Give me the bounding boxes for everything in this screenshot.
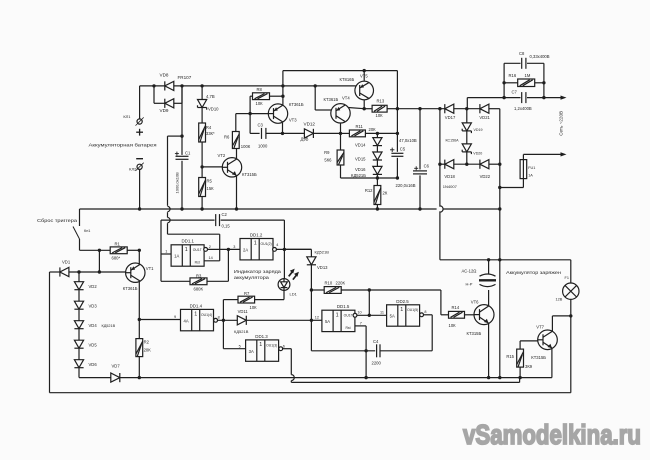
wire C2 right [221,219,285,221]
svg-text:12: 12 [315,316,319,320]
junction bridge center bottom [465,163,468,166]
wire R1 to VT1 emitter node [127,249,139,251]
svg-text:VD14: VD14 [355,142,366,147]
svg-text:OU1(3): OU1(3) [266,343,277,347]
svg-text:DD1.1: DD1.1 [182,239,195,244]
wire R5 to rail [201,197,203,210]
wire VD1 left [50,271,60,273]
junction VT3 base node [248,112,251,115]
wire VT5 emitter to top rail [363,71,365,82]
svg-text:10К: 10К [256,101,264,106]
junction C4 pin7 node [364,349,367,352]
junction bridge left bottom [438,163,441,166]
diode VD15 [373,152,382,160]
junction R10 left [310,288,313,291]
diode VD3 [74,301,83,309]
junction VT1 emitter node [138,249,141,252]
svg-text:33К*: 33К* [206,131,215,136]
svg-text:R13: R13 [377,99,385,104]
svg-text:R2: R2 [144,340,150,345]
capacitor C4 [376,344,381,357]
wire switch top lead [79,209,81,226]
svg-text:2200: 2200 [372,361,382,366]
wire R12 top lead [376,178,378,186]
svg-text:1: 1 [185,247,188,253]
svg-text:КТ361Б: КТ361Б [123,286,138,291]
diode VD9 [165,99,174,108]
capacitor C1 [176,155,189,160]
svg-text:1: 1 [400,307,403,313]
svg-text:VD20: VD20 [473,152,482,156]
svg-text:VT6: VT6 [471,300,479,305]
wire VT2 emitter to rail [236,176,238,209]
junction rail A VT2 [235,207,238,210]
label + of battery [136,129,143,136]
svg-text:0,33x400В: 0,33x400В [530,54,550,59]
svg-text:8: 8 [424,310,426,314]
svg-text:VD18: VD18 [444,174,455,179]
svg-text:R3: R3 [196,274,202,279]
junction R8 to VT3 emitter lead [281,95,284,98]
svg-text:С3: С3 [258,122,264,127]
wire R3 right [207,280,228,282]
wire pin14 stub [204,260,220,262]
wire C5 riser mid [396,109,398,152]
svg-text:11: 11 [380,311,384,315]
svg-text:С8: С8 [519,51,525,56]
wire VD1 to VT1 base [69,271,126,273]
resistor R5 [199,178,206,197]
svg-text:R1: R1 [115,241,121,246]
svg-text:Н-Р: Н-Р [466,281,473,286]
resistor R6 [232,132,239,149]
wire DD1.1 input [161,253,171,255]
wire riser to DD2.5 input [368,290,370,315]
svg-text:OU1(5): OU1(5) [407,308,418,312]
resistor R2 [136,339,143,357]
svg-text:аккумулятора: аккумулятора [234,275,270,280]
wire R8 left riser [249,96,251,133]
svg-text:4А: 4А [184,318,189,323]
capacitor C8 [521,58,527,69]
resistor R9 [337,150,344,165]
diode VD22 [480,160,489,169]
logic inverter DD2.5 [387,305,420,326]
svg-text:VD13: VD13 [317,265,328,270]
wire to R1 [80,249,111,251]
wire VD11 to DD1.5 [247,319,312,321]
junction C4 rail1 [364,376,367,379]
wire lamp top lead [570,260,572,283]
svg-text:VT7: VT7 [536,325,544,330]
svg-text:Д9В: Д9В [301,137,309,142]
transistor VT4 [331,104,350,123]
svg-text:0,15: 0,15 [222,224,231,229]
svg-text:Аккумулятор заряжен: Аккумулятор заряжен [506,270,562,275]
wire chain lead [78,272,80,282]
svg-text:2К: 2К [383,191,388,196]
svg-text:5А: 5А [325,319,330,324]
wire bridge left down upper [439,164,441,207]
junction DD1.5 output [368,314,371,317]
svg-text:9: 9 [174,315,176,319]
zener diode VD10 [198,100,207,110]
capacitor C2 [215,214,221,226]
wire bridge bottom left [440,163,445,165]
LED LD1 [278,279,290,291]
wire bridge left vertical [439,109,441,165]
junction VD10 top [200,84,203,87]
wire left border [49,272,51,393]
junction bridge left top [438,107,441,110]
diode VD21 [480,104,489,113]
junction R1 wire VD1 riser [98,249,101,252]
svg-text:Rst: Rst [195,261,200,265]
resistor R8 [253,93,270,100]
diode VD13 [307,257,316,265]
svg-text:DD1.5: DD1.5 [337,304,350,309]
junction R3 feedback [227,248,230,251]
wire top rail left riser [282,71,284,86]
switch Kn1 [73,227,80,240]
resistor R10 [324,287,341,294]
svg-text:R15: R15 [506,354,514,359]
capacitor C5 [391,152,403,157]
svg-text:680*: 680* [112,256,121,261]
wire C2 left [161,219,215,221]
transistor VT1 [126,263,145,282]
resistor R1 [110,247,127,254]
wire riser R1 to VD1 node [98,250,100,272]
junction VD1 riser bottom [98,270,101,273]
svg-text:VD2: VD2 [89,284,98,289]
svg-text:1А: 1А [528,173,533,177]
buzzer AC-12 [479,274,496,287]
wire VT1 emitter [138,250,140,264]
transistor VT3 [268,104,287,123]
svg-text:1А: 1А [174,254,179,259]
wire FU1 top lead [522,154,524,159]
wire R15 top lead [519,341,521,349]
resistor R11 [349,130,365,137]
svg-text:FU1: FU1 [528,166,535,170]
svg-text:1: 1 [336,312,339,318]
svg-text:DD1.3: DD1.3 [255,334,268,339]
wire mains terminal upper with arrow [544,97,564,99]
svg-text:15К: 15К [207,186,215,191]
svg-text:220К: 220К [336,280,346,285]
wire to R13 [364,108,372,110]
terminal KL2 [136,163,144,171]
LED arrows [289,269,299,280]
svg-text:8: 8 [218,316,220,320]
svg-text:Индикатор заряда: Индикатор заряда [234,269,282,274]
junction VD13 node / DD1.5 input [310,319,313,322]
wire VDD feed branch [168,135,183,137]
terminal KL1 [136,117,144,125]
hop bridge-left wire over rail A [440,206,443,212]
logic inverter DD1.3 [246,340,279,361]
transistor VT7 [538,330,558,350]
svg-text:100К: 100К [241,144,251,149]
resistor R14 [449,311,465,318]
svg-text:VD10: VD10 [208,107,219,112]
wire VT2 collector to R6 [236,148,238,159]
wire C6 riser [419,109,421,170]
wire lamp bottom / right bus [570,299,572,392]
svg-text:VD3: VD3 [89,304,98,309]
svg-text:С1: С1 [185,151,191,156]
svg-text:5: 5 [239,345,241,349]
svg-text:С5: С5 [400,146,406,151]
resistor R3 [190,278,207,285]
junction VDD feed [180,134,183,137]
junction bridge center top [465,107,468,110]
wire bridge to C7 node [466,98,468,109]
junction LED riser [283,248,286,251]
wire C5 bottom [396,158,398,178]
wire VT5 collector down [363,100,365,109]
svg-text:1,2x400В: 1,2x400В [514,106,532,111]
svg-text:12В: 12В [556,298,563,302]
diode VD16 [373,166,382,174]
svg-text:Сброс триггера: Сброс триггера [37,218,78,223]
wire bridge left down lower [439,211,441,259]
svg-text:КТ315Б: КТ315Б [467,331,482,336]
wire R12 to rail [376,205,378,210]
transistor VT2 [222,158,241,177]
fuse FU1 [520,160,527,179]
svg-text:Rst: Rst [345,326,350,330]
wire R3 riser [227,249,229,281]
junction R2 rail1 [138,376,141,379]
svg-text:Кн1: Кн1 [84,229,90,233]
junction diode chain top [77,270,80,273]
wire DD1.3 jog wire to R15 [291,381,519,383]
svg-text:VD21: VD21 [479,115,490,120]
svg-text:С7: С7 [512,89,518,94]
junction C5 ladder [396,176,399,179]
svg-text:1М: 1М [525,73,531,78]
svg-text:10К: 10К [250,305,258,310]
wire R14 to VT6 base [465,314,475,316]
svg-text:КТ361Б: КТ361Б [324,97,339,102]
junction C5 riser [396,132,399,135]
label - of battery [136,158,143,160]
wire R13 output to bridge [397,108,444,110]
wire C8 row left [504,62,520,64]
wire C6 to rail [419,175,421,209]
diode VD14 [373,138,382,146]
transistor VT5 [355,81,374,100]
svg-text:С6: С6 [424,163,430,168]
junction C7 row left [502,96,505,99]
wire to R14 [441,314,449,316]
diode VD6 [74,360,83,368]
svg-text:47,0x10В: 47,0x10В [399,138,417,143]
wire rail1 left [79,377,111,379]
svg-text:20К: 20К [369,127,377,132]
diode VD18 [445,160,454,169]
wire VD10 lead [201,86,203,100]
svg-text:R11: R11 [356,124,364,129]
svg-text:1: 1 [259,342,262,348]
wire R15 bottom lead [519,367,521,378]
svg-text:F1: F1 [565,276,569,280]
wire FU1 to bridge [500,187,524,189]
svg-text:VD17: VD17 [445,115,456,120]
capacitor C7 [521,92,527,103]
wire VD12 to node [313,132,340,134]
resistor R13 [372,105,387,112]
svg-text:10К: 10К [449,323,457,328]
junction C1 top [180,84,183,87]
wire VD9 branch right [174,102,182,104]
wire C1 riser [181,86,183,155]
wire feed to lamp [440,259,571,261]
wire VDD feed down [167,136,169,206]
wire VD13 riser down [310,265,312,351]
svg-text:220,0x16В: 220,0x16В [396,183,416,188]
junction FU1 bridge [498,186,501,189]
svg-text:КТ315Б: КТ315Б [531,355,546,360]
svg-text:VD7: VD7 [112,363,121,368]
svg-text:R9: R9 [324,150,330,155]
junction VD14 top [376,132,379,135]
wire top rail [283,70,398,72]
wire LED top lead [283,249,285,278]
svg-text:С2: С2 [222,212,228,217]
svg-text:20К: 20К [144,347,152,352]
wire DD1.3 output [283,348,292,350]
wire FU1 bottom lead [522,179,524,188]
svg-text:1000: 1000 [258,143,268,148]
svg-text:R12: R12 [365,188,373,193]
wire VT3 collector down [282,123,284,134]
svg-text:КТ816Б: КТ816Б [340,77,355,82]
svg-text:КД521В: КД521В [234,329,249,334]
svg-text:3А: 3А [249,349,254,354]
wire VT1 collector to R2 [138,281,140,339]
wire R7 left [223,299,238,301]
wire RC left riser [503,63,505,97]
wire R16 left [504,82,518,84]
svg-text:VD5: VD5 [89,343,98,348]
svg-text:vSamodelkina.ru: vSamodelkina.ru [463,419,641,450]
svg-text:1N4007: 1N4007 [443,184,458,189]
wire KL2 down to common rail [139,170,141,209]
wire RC right riser [543,63,545,97]
wire C1 to rail [181,161,183,209]
wire R9 top [340,133,342,150]
wire C8 row right [527,62,544,64]
junction VT1 collector / DD1.4 input [138,318,141,321]
diode VD5 [74,340,83,348]
wire VT6 collector to buzzer [488,290,490,306]
wire timer left riser [160,220,162,281]
wire VT4 base riser [314,86,316,110]
wire VT7 collector top [552,315,570,317]
svg-text:VT4: VT4 [342,96,350,101]
svg-text:АС-12Ω: АС-12Ω [462,268,477,273]
wire VD10 to R4 [201,108,203,123]
junction VT4 base rail [314,84,317,87]
bubble DD1.2 output [273,248,277,252]
wire R2 to rail1 [138,357,140,378]
svg-text:VD22: VD22 [480,174,491,179]
svg-text:VT3: VT3 [289,118,297,123]
label C1 plus [175,152,179,156]
diode VD1 [60,267,69,276]
svg-text:10: 10 [357,311,361,315]
svg-text:Сеть ~220В: Сеть ~220В [559,111,564,136]
wire VD14 lead [376,133,378,137]
svg-text:680К: 680К [194,286,204,291]
svg-text:VD6: VD6 [89,362,98,367]
junction C6 top [418,107,421,110]
svg-text:DD2.5: DD2.5 [396,299,409,304]
junction VT5 emitter top rail [363,69,366,72]
diode VD12 [304,129,313,138]
svg-text:КД521Б: КД521Б [351,173,366,178]
junction R13 output [396,107,399,110]
junction R15 rail1 [518,376,521,379]
svg-text:R4: R4 [206,125,212,130]
label C6 plus [414,166,418,170]
wire common rail A right part [443,208,500,210]
svg-text:14: 14 [209,256,213,260]
svg-text:OU1(4): OU1(4) [201,313,212,317]
svg-text:6: 6 [283,345,285,349]
resistor R16 [518,79,535,87]
wire C3 to VD12 [266,132,305,134]
junction VT7 collector bus [569,314,572,317]
wire C4 node to rail1 [365,351,367,378]
junction VT6 emitter rail1 [487,376,490,379]
svg-text:7: 7 [360,321,362,325]
svg-text:R14: R14 [452,305,460,310]
svg-text:VD11: VD11 [238,309,249,314]
wire R4 to R5 [201,142,203,178]
wire ladder bottom y178 [341,177,398,179]
junction rail A right end [498,207,501,210]
junction rail A R5 [200,207,203,210]
svg-text:VT1: VT1 [146,266,154,271]
svg-text:Аккумуляторная батарея: Аккумуляторная батарея [89,143,158,148]
wire to DD1.4 input [139,319,180,321]
junction VT5 collector node [363,107,366,110]
svg-text:2: 2 [209,245,211,249]
wire LED to R7 [255,299,284,301]
bubble DD2.5 output [420,313,424,317]
wire DD2.5 output [424,314,433,316]
transistor VT6 [474,305,494,325]
svg-text:КД521В: КД521В [102,324,116,328]
capacitor C6 [413,170,427,175]
svg-text:R7: R7 [244,291,250,296]
wire mains terminal lower with arrow [523,153,563,155]
svg-text:4,7В: 4,7В [206,94,215,99]
svg-text:КТ361Б: КТ361Б [289,102,304,107]
svg-text:10К: 10К [376,113,384,118]
wire bridge right vertical [499,109,501,188]
svg-text:VD8: VD8 [160,73,169,78]
wire VT6 emitter to rail1 [488,323,490,378]
wire C4 left [311,350,375,352]
wire battery plus rail y86 [140,85,356,87]
junction DD gate feed [368,288,371,291]
wire VT3 base [250,113,268,115]
